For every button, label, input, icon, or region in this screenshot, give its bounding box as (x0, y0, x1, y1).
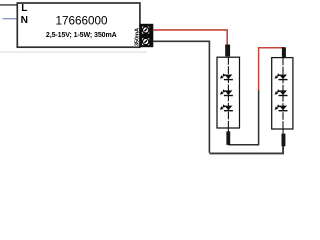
series wire red to module 2 top (259, 48, 284, 91)
scan artifact streak under driver box (0, 51, 147, 53)
LED module 1 body (217, 57, 240, 128)
wire stub module 2 bottom (282, 129, 284, 136)
LED D1 (220, 73, 233, 79)
LED D2 (220, 89, 233, 95)
LED D4 (275, 73, 288, 79)
wire L (mains live lead) (0, 4, 17, 6)
module 1 center line (dashed) (227, 57, 229, 128)
svg-text:L: L (21, 3, 27, 14)
wire red + from driver to module 1 top (153, 30, 227, 46)
terminal screw - (143, 38, 149, 44)
LED D6 (275, 104, 288, 110)
svg-text:N: N (21, 15, 28, 26)
connector pin module 1 bottom (226, 131, 230, 145)
module 2 center line (dashed) (282, 58, 284, 129)
wire black bottom run (209, 146, 283, 153)
LED driver box 17666000 (17, 3, 140, 47)
svg-text:350mA: 350mA (134, 28, 140, 46)
svg-text:17666000: 17666000 (55, 15, 108, 28)
LED D3 (220, 104, 233, 110)
LED D5 (275, 89, 288, 95)
output terminal block (140, 24, 154, 47)
LED module 2 body (272, 58, 293, 129)
wire N (mains neutral lead, blue) (3, 18, 18, 20)
terminal screw + (143, 27, 149, 33)
connector pin module 2 bottom (282, 134, 286, 147)
series wire black from module 1 bottom (228, 90, 258, 145)
connector pin module 1 top (225, 45, 230, 57)
svg-text:2,5-15V; 1-5W; 350mA: 2,5-15V; 1-5W; 350mA (46, 32, 117, 39)
connector pin module 2 top (282, 47, 286, 58)
wire stub module 1 bottom (227, 128, 229, 134)
wire black - from driver along bottom to module 2 bottom (153, 41, 210, 153)
